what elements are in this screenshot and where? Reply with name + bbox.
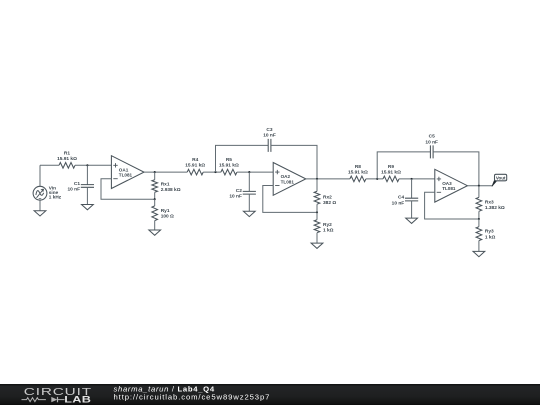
capacitor C5	[377, 134, 479, 186]
svg-text:TL081: TL081	[281, 179, 295, 184]
svg-text:10 nF: 10 nF	[67, 187, 80, 193]
ground for C1	[82, 205, 94, 210]
svg-text:1 kHz: 1 kHz	[49, 194, 62, 199]
svg-text:http://circuitlab.com/ce5w89wz: http://circuitlab.com/ce5w89wz253p7	[114, 393, 271, 402]
wire Vin to R1	[40, 164, 59, 166]
resistor R1	[57, 150, 77, 168]
node n2b junction	[248, 171, 250, 173]
ground for Ry1	[149, 230, 161, 235]
node n2a junction	[214, 171, 216, 173]
svg-text:100 Ω: 100 Ω	[161, 214, 174, 220]
ground for C4	[406, 218, 418, 223]
node out2 junction	[316, 178, 318, 180]
wire OA2 output	[306, 178, 350, 180]
svg-text:R8: R8	[355, 164, 361, 170]
node out1 junction	[154, 171, 156, 173]
node fb2 junction	[316, 211, 318, 213]
svg-text:Rx1: Rx1	[161, 181, 170, 187]
wire R8 to R9	[366, 178, 383, 180]
wire OA1 feedback	[101, 179, 155, 200]
source V_in	[33, 165, 62, 210]
wire OA3 output	[467, 185, 492, 187]
CircuitLab logo CIRCUIT	[24, 386, 92, 398]
svg-text:R1: R1	[64, 150, 70, 156]
resistor Rx2	[314, 179, 336, 213]
capacitor C2	[229, 172, 256, 211]
logo resistor-diode glyph	[22, 397, 65, 402]
svg-text:15.91 kΩ: 15.91 kΩ	[348, 170, 368, 176]
svg-text:C3: C3	[266, 127, 272, 133]
svg-text:2.938 kΩ: 2.938 kΩ	[161, 187, 181, 193]
ground for C2	[243, 211, 255, 216]
svg-text:10 nF: 10 nF	[425, 139, 438, 145]
svg-text:15.91 kΩ: 15.91 kΩ	[381, 170, 401, 176]
svg-text:TL081: TL081	[442, 186, 456, 191]
svg-text:C2: C2	[236, 188, 242, 194]
ground for V_in	[34, 211, 46, 216]
resistor Ry2	[314, 212, 333, 243]
op-amp OA2	[273, 163, 306, 196]
svg-text:R9: R9	[388, 164, 394, 170]
wire R4 to R5	[203, 171, 221, 173]
svg-text:C1: C1	[74, 181, 80, 187]
wire R5 to OA2 + input	[237, 171, 273, 173]
svg-text:Rx2: Rx2	[323, 194, 332, 200]
node n3a junction	[376, 178, 378, 180]
resistor R9	[381, 164, 401, 182]
svg-text:C5: C5	[429, 134, 435, 140]
svg-text:10 nF: 10 nF	[229, 194, 242, 200]
svg-text:Ry2: Ry2	[323, 222, 332, 228]
node fb1 junction	[154, 198, 156, 200]
resistor Ry1	[152, 199, 174, 230]
resistor Ry3	[476, 219, 495, 251]
svg-text:R5: R5	[226, 157, 232, 163]
svg-text:R4: R4	[192, 157, 198, 163]
svg-text:Vout: Vout	[496, 176, 506, 181]
svg-text:Ry3: Ry3	[485, 229, 494, 235]
svg-text:TL081: TL081	[119, 173, 133, 178]
svg-text:Rx3: Rx3	[485, 199, 494, 205]
op-amp OA3	[435, 169, 468, 202]
resistor R4	[185, 157, 205, 175]
op-amp OA1	[111, 156, 144, 189]
svg-text:382 Ω: 382 Ω	[323, 200, 336, 206]
footer bar	[0, 384, 540, 405]
resistor R8	[348, 164, 368, 182]
resistor Rx1	[152, 172, 181, 199]
capacitor C1	[67, 165, 94, 204]
svg-text:1 kΩ: 1 kΩ	[485, 234, 496, 240]
resistor R5	[219, 157, 239, 175]
node A junction	[86, 164, 88, 166]
wire OA2 feedback	[263, 186, 317, 213]
wire OA3 feedback	[425, 192, 479, 219]
svg-text:C4: C4	[398, 195, 404, 201]
logo LAB	[64, 395, 91, 405]
svg-text:1.382 kΩ: 1.382 kΩ	[485, 205, 505, 211]
svg-text:LAB: LAB	[64, 395, 91, 405]
svg-text:10 nF: 10 nF	[263, 133, 276, 139]
node n3b junction	[411, 178, 413, 180]
wire R9 to OA3 + input	[399, 178, 435, 180]
node Vout flag	[492, 174, 507, 186]
wire OA1 output	[144, 171, 187, 173]
ground for Ry2	[311, 243, 323, 248]
svg-text:1 kΩ: 1 kΩ	[323, 227, 334, 233]
svg-text:10 nF: 10 nF	[392, 200, 405, 206]
capacitor C3	[216, 127, 318, 179]
svg-text:15.91 kΩ: 15.91 kΩ	[57, 156, 77, 162]
node out3 junction	[478, 185, 480, 187]
ground for Ry3	[473, 251, 485, 256]
capacitor C4	[392, 179, 419, 218]
wire R1 to OA1 + input	[75, 164, 111, 166]
resistor Rx3	[476, 186, 505, 219]
svg-text:15.91 kΩ: 15.91 kΩ	[219, 163, 239, 169]
svg-text:Ry1: Ry1	[161, 208, 170, 214]
svg-text:15.91 kΩ: 15.91 kΩ	[185, 163, 205, 169]
node fb3 junction	[478, 218, 480, 220]
